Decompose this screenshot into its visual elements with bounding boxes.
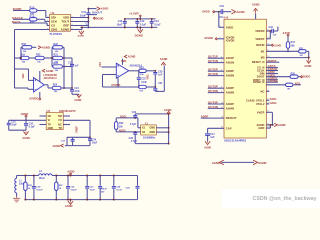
svg-text:IOVDD: IOVDD — [205, 36, 214, 40]
svg-text:R15: R15 — [30, 6, 35, 10]
svg-text:AGND: AGND — [304, 65, 311, 68]
svg-text:3.0VD: 3.0VD — [274, 43, 281, 47]
svg-text:GND: GND — [149, 127, 155, 130]
svg-text:AIN1P: AIN1P — [226, 56, 234, 60]
svg-text:DGND: DGND — [258, 161, 266, 165]
svg-text:1uF: 1uF — [210, 136, 215, 139]
svg-text:AGND: AGND — [236, 10, 244, 14]
svg-text:DONE_N: DONE_N — [253, 80, 264, 84]
svg-text:0R: 0R — [287, 88, 290, 90]
svg-text:1nF: 1nF — [158, 74, 163, 76]
svg-text:OUT3N: OUT3N — [208, 89, 218, 93]
svg-text:ADR381ARTZ: ADR381ARTZ — [59, 109, 76, 113]
svg-text:IOVDD: IOVDD — [226, 38, 235, 42]
svg-text:AIN4P: AIN4P — [226, 102, 234, 106]
svg-text:A5VDD: A5VDD — [29, 96, 38, 100]
svg-text:OUT2N: OUT2N — [208, 72, 218, 76]
svg-text:REFIN: REFIN — [256, 43, 264, 47]
svg-text:TP: TP — [48, 123, 52, 126]
svg-text:VO: VO — [58, 119, 62, 122]
svg-text:R20: R20 — [291, 73, 296, 76]
svg-text:ADS131A04IPBS: ADS131A04IPBS — [224, 139, 246, 143]
svg-text:A5VDD: A5VDD — [111, 83, 120, 87]
svg-text:OUT3P: OUT3P — [208, 85, 218, 89]
svg-text:XTAL2: XTAL2 — [256, 102, 265, 106]
svg-text:AIN2P: AIN2P — [226, 69, 234, 73]
svg-text:GND: GND — [258, 126, 264, 130]
svg-text:ADS1: ADS1 — [120, 115, 127, 119]
svg-text:16.000MHz: 16.000MHz — [143, 137, 156, 140]
svg-text:U1: U1 — [51, 11, 55, 15]
svg-text:C30: C30 — [158, 71, 163, 73]
svg-text:SDO: SDO — [51, 28, 58, 32]
svg-text:REFEXT: REFEXT — [226, 116, 237, 120]
svg-text:NC: NC — [48, 115, 52, 118]
svg-text:AVDD: AVDD — [21, 112, 29, 116]
svg-text:1nF: 1nF — [74, 65, 79, 67]
svg-text:M1: M1 — [261, 49, 265, 53]
svg-text:10uF: 10uF — [92, 142, 98, 144]
svg-text:47R: 47R — [30, 21, 35, 24]
svg-text:0.1uF: 0.1uF — [29, 126, 36, 129]
svg-text:U2B: U2B — [121, 59, 126, 63]
svg-text:AIN3N: AIN3N — [226, 91, 234, 95]
svg-text:DODO: DODO — [303, 76, 311, 79]
svg-text:0.1uF: 0.1uF — [154, 23, 161, 26]
svg-text:DACS: DACS — [12, 20, 21, 24]
svg-text:100uF: 100uF — [70, 190, 77, 192]
svg-text:NCS: NCS — [295, 82, 301, 85]
svg-text:0R: 0R — [300, 55, 303, 57]
svg-text:C24: C24 — [74, 87, 79, 90]
svg-text:VREFP: VREFP — [255, 37, 264, 41]
svg-text:R23: R23 — [54, 62, 59, 65]
svg-text:VR2: VR2 — [146, 74, 150, 80]
svg-text:CLKIN_XTAL1: CLKIN_XTAL1 — [246, 98, 265, 102]
svg-text:15nF: 15nF — [141, 81, 147, 84]
svg-text:AIN2N: AIN2N — [226, 74, 234, 78]
svg-text:TR: TR — [58, 127, 62, 130]
svg-text:NC: NC — [261, 89, 265, 93]
svg-text:AGND: AGND — [74, 99, 81, 102]
svg-text:AIN3P: AIN3P — [226, 86, 234, 90]
svg-text:0.1uF: 0.1uF — [116, 190, 122, 192]
svg-text:VREF: VREF — [75, 126, 79, 133]
svg-text:RESET_N: RESET_N — [252, 60, 265, 64]
svg-text:AGND: AGND — [164, 108, 172, 112]
svg-text:AGND: AGND — [42, 46, 50, 50]
svg-text:VI: VI — [48, 119, 51, 122]
svg-text:OUT4N: OUT4N — [208, 105, 218, 109]
svg-text:VB1: VB1 — [21, 73, 25, 79]
svg-text:AGND: AGND — [128, 55, 136, 59]
svg-text:10V: 10V — [101, 192, 105, 194]
svg-text:R16: R16 — [30, 14, 35, 18]
svg-text:0.1uF: 0.1uF — [140, 23, 147, 26]
svg-text:AGND: AGND — [204, 147, 211, 150]
svg-text:OUT4P: OUT4P — [208, 100, 218, 104]
svg-text:OUT1P: OUT1P — [208, 55, 218, 59]
svg-text:VNCP: VNCP — [257, 110, 265, 114]
svg-text:DGND: DGND — [96, 16, 104, 20]
svg-text:4.7pF: 4.7pF — [130, 123, 137, 126]
svg-text:AIN1N: AIN1N — [226, 61, 234, 65]
svg-text:1M: 1M — [119, 125, 122, 128]
svg-text:CSDN @on_the_backway: CSDN @on_the_backway — [253, 196, 317, 202]
svg-text:1uF: 1uF — [273, 35, 278, 37]
svg-text:AIN4N: AIN4N — [226, 106, 234, 110]
svg-text:R24: R24 — [53, 84, 58, 87]
svg-text:OUT2P: OUT2P — [208, 68, 218, 72]
svg-text:AGND: AGND — [46, 69, 54, 73]
svg-text:AVDD: AVDD — [202, 9, 210, 13]
svg-text:C34: C34 — [92, 138, 97, 141]
svg-text:AGND: AGND — [22, 136, 30, 140]
svg-text:ADRF: ADRF — [201, 115, 209, 119]
svg-text:DADR: DADR — [13, 7, 22, 11]
svg-text:100uF: 100uF — [36, 190, 43, 192]
svg-text:C19: C19 — [220, 5, 225, 8]
svg-text:ADS2: ADS2 — [119, 129, 126, 133]
svg-text:U3: U3 — [46, 109, 50, 113]
svg-text:R19: R19 — [21, 54, 26, 57]
svg-text:VREFN: VREFN — [255, 29, 264, 33]
svg-text:CAP: CAP — [226, 126, 232, 130]
svg-text:C21: C21 — [68, 62, 73, 65]
svg-text:DGND: DGND — [135, 34, 143, 38]
svg-text:U4: U4 — [224, 16, 228, 20]
svg-text:ADS2: ADS2 — [270, 102, 277, 105]
svg-text:10k: 10k — [291, 44, 296, 47]
svg-text:TLC5615: TLC5615 — [49, 32, 62, 36]
svg-text:AGND: AGND — [160, 57, 168, 61]
svg-text:R18: R18 — [22, 43, 27, 46]
svg-text:C22: C22 — [132, 111, 137, 114]
svg-text:AGND: AGND — [252, 3, 260, 7]
svg-text:OUT1N: OUT1N — [208, 59, 218, 63]
svg-text:AGND: AGND — [52, 144, 60, 148]
svg-text:R20: R20 — [36, 54, 41, 57]
svg-text:Y1: Y1 — [145, 122, 149, 126]
svg-text:10n: 10n — [219, 16, 224, 19]
svg-text:10uF: 10uF — [80, 13, 86, 17]
svg-text:ADS1: ADS1 — [270, 98, 277, 101]
svg-text:AGND: AGND — [278, 123, 286, 127]
svg-text:NC: NC — [58, 123, 62, 126]
svg-text:GND: GND — [48, 127, 54, 130]
svg-text:M0: M0 — [261, 56, 265, 60]
svg-text:R23: R23 — [139, 67, 144, 70]
svg-text:R22: R22 — [54, 43, 59, 46]
svg-text:GND: GND — [149, 131, 155, 134]
svg-text:AGND: AGND — [61, 28, 70, 32]
svg-text:AGND: AGND — [212, 161, 220, 165]
svg-text:AGND: AGND — [78, 34, 85, 37]
svg-text:10uF: 10uF — [11, 124, 17, 127]
svg-text:+5.0VD: +5.0VD — [129, 11, 139, 15]
svg-text:NR: NR — [58, 115, 62, 118]
svg-text:10uF: 10uF — [117, 23, 123, 26]
svg-text:R21: R21 — [299, 47, 304, 50]
svg-text:AVDD: AVDD — [226, 25, 234, 29]
svg-text:10nF: 10nF — [74, 91, 80, 93]
svg-text:10uF: 10uF — [90, 190, 96, 192]
svg-text:AGND: AGND — [65, 204, 73, 208]
svg-text:R21: R21 — [54, 54, 59, 57]
svg-text:4.7pF: 4.7pF — [131, 140, 138, 143]
svg-text:ADA4522-2: ADA4522-2 — [44, 77, 58, 80]
svg-text:15uH: 15uH — [39, 177, 45, 180]
svg-text:VX2: VX2 — [98, 62, 102, 67]
svg-text:C31: C31 — [158, 83, 163, 85]
